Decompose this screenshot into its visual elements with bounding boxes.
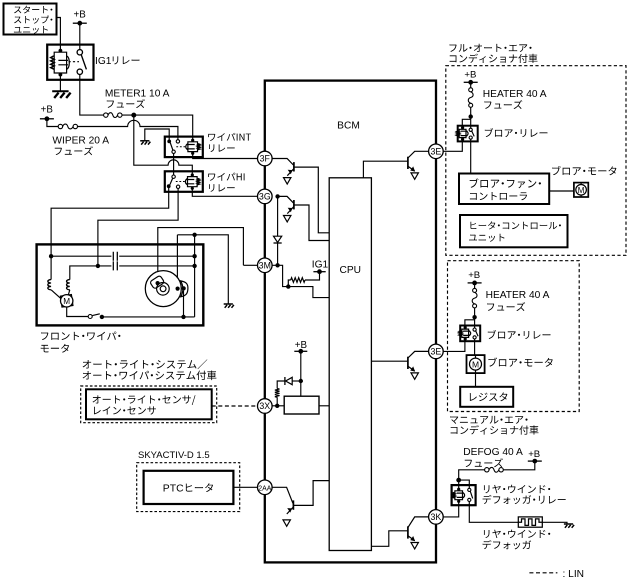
node resistor junction: [286, 284, 290, 288]
transistor Q3 (2AA driver) base: [272, 487, 293, 503]
wire relay2 coil to 3E: [443, 339, 465, 351]
blower fan controller box: [459, 174, 549, 205]
wire 3X node to box: [272, 405, 284, 407]
ground (defogger) strokes: [565, 525, 574, 528]
node follower contact: [182, 286, 186, 290]
ground (INT relay) bar: [140, 140, 149, 142]
relay IG1 coil outline: [54, 51, 66, 75]
relay HI switch blade: [170, 178, 173, 184]
park switch blade: [92, 314, 100, 316]
node follower inner: [176, 287, 180, 291]
front wiper motor label line1: [41, 331, 120, 340]
relay INT switch pivot: [167, 140, 171, 144]
relay defogger label line1: [484, 485, 550, 493]
wire motor3 to resistor: [475, 373, 477, 387]
wire controller to motor: [549, 190, 574, 192]
wire CPU to Q4 base: [363, 161, 407, 178]
wire choke1 to motor: [51, 290, 61, 299]
node cap line1 right: [192, 254, 196, 258]
fuse METER1 label kana: [107, 99, 145, 108]
relay blower-2 contact bottom: [473, 336, 476, 339]
BCM box: [265, 81, 436, 563]
start-stop unit label line2: [14, 16, 52, 24]
wire driver box to CPU: [319, 405, 329, 407]
relay wiper-INT label line2: [209, 144, 235, 152]
fuse HEATER 40A (2) terminal: [473, 304, 477, 308]
transistor Q4 (3E blower driver) collector: [408, 151, 429, 158]
node 3X junction: [275, 404, 279, 408]
start-stop unit box: [4, 4, 57, 35]
fuse HEATER 40A (2) terminal: [473, 288, 477, 292]
heater control unit label line2: [469, 234, 504, 242]
blower fan controller label line2: [470, 192, 527, 200]
ground (IG1 relay) bar: [52, 90, 68, 92]
fuse HEATER 40A (1) element: [468, 92, 473, 104]
source +B (BCM) bar: [294, 350, 307, 352]
fuse METER1 terminal: [104, 113, 108, 117]
wire motor to park switch: [67, 307, 89, 317]
svg-text:HEATER 40 A: HEATER 40 A: [486, 290, 550, 301]
wire fuse 2 to relay 2: [474, 308, 476, 329]
node blower relay feed: [469, 114, 473, 118]
svg-text:+B: +B: [41, 105, 54, 116]
diode D1 cathode bar: [274, 242, 282, 244]
wire +B to IG1 switch: [79, 23, 81, 49]
relay wiper-INT coil bump: [186, 144, 188, 150]
wire DEFOG fuse to relay: [459, 470, 485, 489]
svg-text:DEFOG 40 A: DEFOG 40 A: [463, 447, 523, 458]
wire HI coil to 3G: [192, 188, 257, 196]
relay wiper-INT coil outline: [188, 140, 198, 153]
wire capacitor line1 right: [119, 255, 194, 257]
transistor Q2 (3G driver) emitter arrow: [288, 208, 293, 213]
fuse METER1 element: [108, 113, 118, 118]
power +B (HEATER fuse 2) bar: [468, 282, 482, 284]
resistor R1: [291, 278, 305, 283]
node riser cap2: [192, 264, 196, 268]
park switch contact: [88, 315, 92, 319]
motor M2 brushes: [580, 183, 582, 197]
power +B (IG1 relay) dot: [77, 21, 82, 26]
svg-text:3K: 3K: [431, 512, 442, 522]
transistor Q3 (2AA driver) collector: [293, 481, 329, 506]
wire diode D2 to +B: [292, 380, 301, 382]
node blower relay 2 feed: [472, 315, 476, 319]
relay blower-2 coil bump: [469, 331, 471, 336]
fuse WIPER label kana: [55, 146, 93, 155]
power +B (WIPER) dot: [45, 116, 50, 121]
rear defogger label line2: [483, 540, 532, 549]
transistor Q6 (3K defogger driver) down arrow: [411, 543, 418, 549]
wire LIN sensor to 3X: [212, 405, 258, 407]
rear defogger label line1: [484, 530, 550, 538]
CPU box: [329, 178, 371, 551]
rear defogger element: [518, 519, 542, 526]
wire start-stop to IG1 coil: [57, 18, 61, 51]
transistor Q2 (3G driver) base: [278, 196, 294, 203]
power +B (HEATER fuse 1) dot: [468, 80, 473, 85]
relay rear-defogger coil bars: [457, 493, 464, 497]
transistor Q2 (3G driver) bar: [293, 200, 295, 209]
wire relay2 contact to motor: [474, 339, 476, 355]
power +B (WIPER) bar: [40, 118, 54, 120]
source +B (BCM) dot: [298, 349, 303, 354]
park switch pivot: [100, 315, 104, 319]
transistor Q5 (3E blower driver 2) bar: [407, 357, 409, 369]
relay INT switch contact bottom: [172, 150, 175, 153]
front wiper motor label line2: [41, 344, 69, 353]
wire resistor to node: [288, 280, 290, 287]
wire METER1 fuse to INT coil: [122, 115, 193, 140]
fuse HEATER label 1 kana: [484, 100, 522, 109]
svg-text:PTC: PTC: [163, 484, 184, 495]
motor M3 frame: [467, 355, 485, 373]
start-stop unit label line1: [14, 6, 52, 14]
wire choke2 to motor: [68, 290, 70, 295]
wire feed to defog switch: [459, 480, 470, 488]
transistor Q3 (2AA driver) emitter arrow: [287, 508, 292, 512]
svg-text:+B: +B: [528, 449, 540, 460]
wire INT pivot to ground: [145, 129, 169, 141]
full-auto AC label line2: [450, 54, 538, 63]
relay rear-defogger box: [452, 485, 476, 505]
ground (wiper motor) bar: [224, 303, 233, 305]
PTC heater label kana: [186, 483, 213, 492]
PTC dashed box: [137, 463, 240, 512]
svg-text:IG1: IG1: [312, 259, 329, 270]
node cap line2 junction: [96, 264, 100, 268]
motor M2 frame: [574, 183, 588, 197]
wire WIPER fuse to INT switch: [78, 120, 178, 139]
connector 3G: [258, 189, 273, 204]
transistor Q1 (3F driver) bar: [293, 162, 295, 171]
wire HI contact to wiper motor high: [98, 189, 178, 266]
svg-text:METER1 10 A: METER1 10 A: [105, 89, 170, 100]
relay rear-defogger coil bottom node: [457, 500, 460, 503]
fuse HEATER 40A (1) terminal: [469, 88, 473, 92]
svg-text:CPU: CPU: [340, 265, 362, 276]
wire follower down: [183, 291, 185, 317]
rear defogger element frame: [518, 517, 542, 527]
motor M1 frame: [60, 295, 72, 307]
ground (IG1 relay) strokes: [54, 93, 70, 98]
relay wiper-HI coil bump: [185, 178, 187, 185]
wiper cam plate: [145, 271, 181, 307]
node 3G base: [275, 194, 279, 198]
relay blower-2 box: [460, 326, 480, 342]
transistor Q1 (3F driver) emitter: [287, 169, 293, 176]
wire +B to fuse: [470, 82, 472, 88]
transistor Q6 (3K defogger driver) emitter: [408, 536, 415, 541]
wire IG1 to resistor: [305, 272, 320, 280]
source IG1 dot: [317, 269, 322, 274]
fuse METER1 terminal: [118, 113, 122, 117]
power +B (HEATER fuse 1) bar: [464, 81, 478, 83]
auto light system label line1: [83, 359, 208, 369]
svg-text:+B: +B: [464, 70, 476, 81]
power +B (DEFOG) dot: [532, 459, 537, 464]
relay blower-2 contact top: [473, 328, 476, 331]
svg-text:M: M: [472, 359, 479, 369]
transistor Q6 (3K defogger driver) bar: [407, 526, 409, 538]
motor M2: [576, 185, 587, 196]
auto light dashed box: [81, 386, 217, 423]
connector 3E (lower): [429, 344, 444, 359]
wire resistor R2 leads: [277, 381, 285, 406]
wire HI pivot to wiper motor low: [51, 188, 169, 256]
relay wiper-INT coil resistor: [198, 144, 200, 150]
heater control unit label line1: [470, 221, 561, 229]
cam follower contact: [181, 281, 188, 297]
transistor Q2 (3G driver) collector: [294, 205, 329, 241]
wire fuse to relay: [470, 107, 472, 129]
diode D1: [274, 236, 282, 242]
relay IG1 coil bars: [58, 60, 68, 64]
wire METER1 junction to HI coil: [134, 115, 193, 175]
motor M3 brushes: [475, 355, 477, 373]
wire capacitor line1 left: [51, 255, 111, 257]
relay blower-2 coil resistor: [459, 331, 461, 336]
svg-text:3E: 3E: [431, 347, 442, 357]
wire feed 2 to coil hook: [465, 320, 475, 328]
relay rear-defogger coil resistor: [453, 492, 455, 498]
connector 2AA: [258, 480, 273, 495]
manual AC dashed box: [448, 261, 580, 412]
heater control unit box: [460, 215, 568, 247]
ground (INT relay) strokes: [141, 142, 150, 145]
relay defogger contact bottom: [468, 498, 471, 501]
relay blower-1 coil bottom node: [461, 138, 464, 141]
node 3M junction: [275, 263, 279, 267]
transistor Q4 (3E blower driver) emitter: [408, 166, 415, 171]
connector 3X: [258, 399, 273, 414]
fuse DEFOG 40A element: [489, 467, 499, 472]
relay blower-1 coil top node: [461, 126, 464, 129]
svg-text:3F: 3F: [260, 154, 271, 164]
relay rear-defogger coil top node: [457, 488, 460, 491]
wire IG1 switch to METER1 fuse: [80, 75, 104, 116]
ground (wiper motor) strokes: [225, 305, 234, 308]
front wiper motor box: [37, 244, 204, 325]
fuse WIPER element: [63, 124, 74, 129]
relay IG1 box: [47, 45, 93, 80]
source IG1 bar: [313, 271, 325, 273]
relay blower-1 box: [458, 126, 478, 142]
relay rear-defogger coil outline: [455, 489, 463, 501]
svg-text:+B: +B: [468, 270, 480, 281]
auto light sensor label line1: [93, 395, 196, 405]
svg-text:3X: 3X: [259, 401, 270, 411]
power +B (HEATER fuse 2) dot: [472, 281, 477, 286]
connector 3M: [258, 258, 273, 273]
power +B (DEFOG) bar: [528, 460, 542, 462]
wire choke1 feed: [50, 256, 52, 279]
relay wiper-HI coil bottom node: [191, 187, 194, 190]
transistor Q1 (3F driver) down arrow: [284, 178, 291, 184]
relay wiper-HI coil top node: [191, 173, 194, 176]
resistor box label: [470, 392, 508, 401]
PTC heater box: [144, 471, 234, 504]
wire relay coil to 3E: [443, 139, 462, 151]
relay blower-1 blade: [472, 131, 475, 136]
manual AC label line1: [450, 416, 528, 424]
transistor Q3 (2AA driver) emitter: [287, 507, 293, 514]
relay blower-2 coil bars: [463, 331, 470, 335]
relay IG1 switch contact top: [77, 50, 82, 55]
capacitor C2: [113, 261, 117, 270]
relay wiper-HI label line1: [208, 173, 244, 181]
fuse HEATER 40A (2) element: [472, 292, 477, 304]
node defog relay feed: [456, 478, 461, 483]
relay INT coil dashes: [176, 146, 185, 148]
relay IG1 coil top node: [59, 49, 63, 53]
transistor Q6 (3K defogger driver) emitter arrow: [410, 536, 415, 541]
node +B branch: [299, 379, 303, 383]
svg-text:3G: 3G: [259, 192, 271, 202]
relay blower-1 label: [485, 128, 548, 137]
transistor Q3 (2AA driver) bar: [292, 500, 294, 509]
transistor Q3 (2AA driver) down arrow: [283, 520, 290, 526]
relay wiper-INT box: [165, 137, 203, 158]
manual AC label line2: [451, 425, 539, 434]
wire riser: [194, 235, 196, 317]
relay wiper-HI coil bars: [186, 180, 194, 184]
relay blower-2 blade: [476, 331, 479, 336]
wire 3G to diode: [277, 196, 279, 236]
relay HI coil dashes: [176, 181, 185, 183]
relay HI switch contact top: [172, 175, 175, 178]
relay blower-2 coil top node: [464, 326, 467, 329]
ground (defogger) bar: [564, 523, 573, 525]
connector 3E (upper): [429, 144, 444, 159]
relay blower-1 coil bump: [466, 131, 468, 136]
wire element to ground: [542, 522, 567, 523]
resistor R2: [275, 389, 280, 398]
wire +B to DEFOG fuse: [503, 461, 534, 470]
connector 3F: [258, 151, 273, 166]
svg-text:IG1: IG1: [95, 56, 112, 67]
relay INT switch contact top: [176, 140, 179, 143]
node riser top: [192, 233, 196, 237]
wire +B to WIPER fuse: [47, 119, 58, 127]
wire capacitor line2 right: [119, 265, 194, 267]
resistor (rejisuta) box: [460, 387, 513, 407]
choke L2: [67, 280, 70, 290]
full-auto AC label line1: [449, 44, 531, 52]
relay IG1 switch blade: [81, 55, 86, 70]
blower motor label (1): [552, 166, 616, 175]
svg-text:M: M: [63, 297, 70, 306]
transistor Q5 (3E blower driver 2) down arrow: [411, 373, 418, 379]
relay IG1 coil resistor: [51, 56, 55, 69]
svg-text:M: M: [578, 186, 585, 195]
relay blower-1 coil resistor: [457, 131, 459, 136]
diode D2 cathode bar: [284, 377, 286, 385]
wire defog coil to 3K: [443, 501, 458, 517]
auto light sensor label line2: [94, 406, 156, 414]
node follower bottom: [181, 315, 185, 319]
connector 3K: [429, 510, 444, 525]
fuse DEFOG label kana: [465, 458, 503, 467]
wire defog switch to element: [469, 502, 518, 523]
relay blower-2 label: [488, 330, 551, 339]
relay blower-1 contact bottom: [469, 136, 472, 139]
fuse WIPER terminal: [58, 124, 62, 128]
transistor Q5 (3E blower driver 2) emitter arrow: [410, 366, 415, 371]
relay wiper-INT label line1: [208, 133, 251, 141]
fuse DEFOG 40A terminal: [499, 468, 503, 472]
blower motor label (2): [488, 357, 552, 366]
svg-text:SKYACTIV-D 1.5: SKYACTIV-D 1.5: [138, 450, 210, 461]
fuse HEATER 40A (1) terminal: [469, 103, 473, 107]
relay IG1 switch contact bottom: [77, 69, 82, 74]
relay wiper-INT coil bars: [186, 145, 194, 149]
relay blower-2 coil outline: [462, 328, 469, 340]
node cap line1 left: [49, 254, 53, 258]
relay defogger blade: [470, 491, 472, 498]
transistor Q4 (3E blower driver) emitter arrow: [410, 166, 415, 171]
wire CPU to Q5 base: [371, 360, 407, 362]
legend LIN dashed line: [529, 572, 557, 574]
wire IG1 coil to ground: [59, 75, 61, 92]
wire +B to fuse 2: [474, 283, 476, 289]
capacitor C1: [113, 252, 117, 261]
wire diode to 3M: [277, 242, 279, 265]
wire ground line: [177, 235, 228, 304]
relay blower-1 contact top: [469, 128, 472, 131]
wire PTC to 2AA: [233, 486, 257, 488]
fuse DEFOG 40A terminal: [485, 468, 489, 472]
wire capacitor line2 left: [70, 266, 112, 280]
motor M3: [470, 358, 482, 370]
auto light sensor box: [86, 389, 212, 419]
relay wiper-INT coil bottom node: [191, 152, 194, 155]
svg-text:2AA: 2AA: [258, 486, 271, 493]
relay wiper-HI label line2: [209, 184, 235, 192]
relay wiper-HI box: [165, 171, 203, 192]
wire feed to coil hook: [462, 119, 470, 127]
wire cam follower feed: [176, 235, 178, 289]
svg-text:3M: 3M: [259, 261, 271, 271]
relay IG1 coil bottom node: [59, 73, 63, 77]
power +B (IG1 relay) bar: [73, 22, 87, 24]
full-auto AC dashed box: [446, 66, 626, 256]
relay rear-defogger coil bump: [463, 492, 465, 498]
relay wiper-HI coil outline: [188, 175, 198, 188]
wire 3M to cam: [243, 264, 257, 266]
relay blower-1 coil outline: [459, 128, 466, 140]
transistor Q2 (3G driver) down arrow: [284, 216, 291, 222]
transistor Q4 (3E blower driver) down arrow: [411, 173, 418, 179]
wire +B to driver box: [300, 351, 302, 396]
fuse HEATER label 2 kana: [487, 302, 525, 311]
wire INT coil to 3F: [193, 153, 258, 158]
wire ground-line to follower link: [157, 282, 159, 284]
relay IG1 coil bump: [67, 56, 70, 69]
diode D2: [286, 377, 293, 384]
blower fan controller label line1: [470, 178, 541, 188]
transistor Q2 (3G driver) emitter: [287, 207, 293, 214]
relay HI switch pivot: [167, 184, 171, 188]
choke L1: [48, 280, 51, 290]
relay IG1 coil dashes: [69, 61, 80, 63]
svg-text:: LIN: : LIN: [563, 569, 585, 580]
transistor Q4 (3E blower driver) bar: [407, 157, 409, 169]
transistor Q1 (3F driver) collector: [294, 167, 329, 233]
svg-text:BCM: BCM: [337, 120, 360, 131]
wiper cam hub: [160, 286, 166, 292]
relay INT switch blade: [170, 143, 173, 150]
